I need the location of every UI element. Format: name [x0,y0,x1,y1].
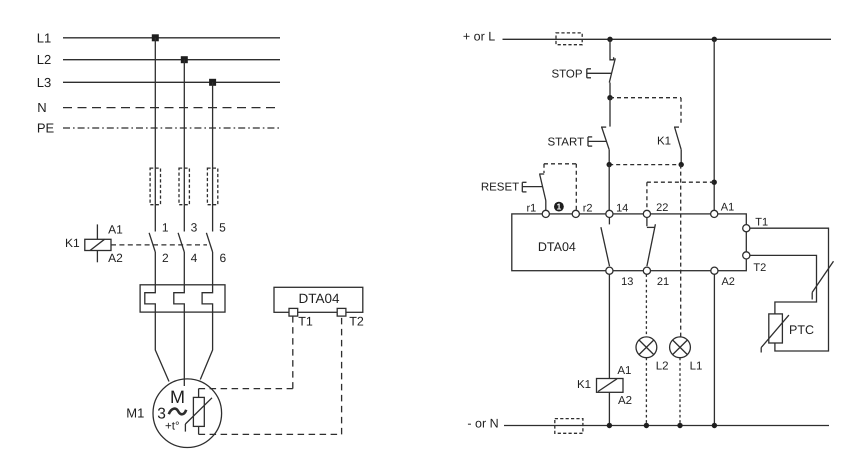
fuse top rail [556,33,582,45]
junction dot bottom L1 [677,423,682,428]
svg-text:A2: A2 [618,395,632,407]
pushbutton START [601,98,610,165]
wire A2 drop [713,274,715,425]
thermistor in motor [185,397,212,431]
wire L2 dashed to bottom [645,358,647,426]
junction dot 22 link [712,180,717,185]
wire motor lead 3 [200,312,212,379]
junction on L1 [152,34,159,41]
dashed 22 to A1 horizontal [647,181,714,183]
svg-text:RESET: RESET [481,182,519,194]
motor M1 circle [153,379,222,448]
RESET actuator [522,182,542,192]
contactor K1 pole 1 contact [149,233,155,285]
terminal T2 [743,252,750,259]
terminal T2 square left [337,308,346,316]
wire sensor dashed top [199,388,293,390]
svg-text:T1: T1 [298,315,313,329]
svg-text:L2: L2 [37,52,51,67]
svg-text:M1: M1 [126,405,144,420]
svg-text:L2: L2 [656,361,669,373]
svg-text:L1: L1 [690,361,703,373]
svg-text:r2: r2 [583,202,593,214]
terminal T1 [743,225,750,232]
svg-text:DTA04: DTA04 [538,240,576,254]
relay contact 22-21 [647,218,656,267]
svg-text:L3: L3 [37,75,51,90]
junction dot STOP bottom [607,95,612,100]
svg-text:A1: A1 [721,202,734,214]
svg-text:K1: K1 [657,136,671,148]
lamp L1 [670,337,691,358]
svg-text:4: 4 [191,251,198,265]
contactor K1 pole 3 contact [206,233,212,285]
pushbutton STOP [609,39,615,97]
DTA04 terminal box left [274,287,363,312]
svg-text:PE: PE [37,121,55,136]
wire motor lead 1 [155,312,169,381]
wire sensor dashed T1 vertical [292,316,294,388]
wire thermistor top stub [198,389,200,398]
svg-text:T1: T1 [755,217,768,229]
RESET dashed right to r2 [575,164,577,211]
svg-text:r1: r1 [527,202,537,214]
net N [37,100,280,115]
wire phase2 drop [183,60,185,232]
fuse F3 [207,168,217,205]
dashed link box right [680,98,682,124]
coil K1 right [597,379,624,393]
wire sensor dashed T2 vertical [341,316,343,434]
net L3 [37,75,280,90]
net plus or L [463,29,831,43]
terminal 21 [643,267,650,274]
wire coil to bottom [608,392,610,425]
svg-text:STOP: STOP [551,68,582,80]
junction dot bottom A2 [712,423,717,428]
net minus or N [467,416,829,430]
terminal A2 [711,267,718,274]
junction dot top left [607,37,612,42]
fuse bottom rail [555,419,583,434]
junction dot bottom 13 [607,423,612,428]
wire 21 dashed drop [645,274,647,337]
svg-text:5: 5 [219,221,226,235]
dashed link box bottom [609,164,681,166]
svg-text:K1: K1 [577,379,591,391]
net PE [37,121,280,136]
wire START to 14 [608,165,610,211]
wire A1 drop [713,39,715,210]
svg-text:2: 2 [162,251,169,265]
svg-text:A1: A1 [617,365,631,377]
wire phase1 drop [154,38,156,232]
svg-text:K1: K1 [65,236,80,250]
svg-text:A2: A2 [721,276,734,288]
svg-text:+ or L: + or L [463,29,495,43]
net L1 [37,30,280,45]
svg-text:22: 22 [656,202,668,214]
svg-text:PTC: PTC [789,323,814,337]
terminal 22 [643,210,650,217]
svg-text:L1: L1 [37,30,51,45]
junction dot START bottom [607,162,612,167]
junction dot K1 bottom [679,162,684,167]
svg-text:START: START [547,137,584,149]
svg-text:A2: A2 [108,251,123,265]
PTC thermistor [761,314,789,353]
relay contact 14-13 [601,218,610,267]
coil symbol K1 left [85,224,111,262]
heater element pole 1 [145,285,156,312]
svg-text:N: N [37,100,46,115]
overload block DTA04 heater box [140,285,225,312]
temperature mark on sensor wires [812,261,833,299]
wire T2 to PTC [750,255,817,314]
tilde AC symbol [169,409,186,415]
pushbutton RESET [539,174,546,210]
svg-text:21: 21 [657,276,669,288]
wire T1 to PTC [750,228,829,351]
terminal A1 [711,210,718,217]
junction dot top right [712,37,717,42]
svg-text:T2: T2 [349,315,364,329]
contactor K1 pole 2 contact [178,233,184,285]
svg-text:3: 3 [191,221,198,235]
fuse F2 [179,168,189,205]
contact K1 aux [674,127,681,165]
mechanical linkage dashed [111,244,207,246]
terminal 13 [606,267,613,274]
terminal r2 [572,210,579,217]
wire phase3 drop [212,82,214,231]
terminal 14 [606,210,613,217]
dashed link box top [610,97,681,99]
heater element pole 3 [202,285,213,312]
heater element pole 2 [174,285,185,312]
RESET dashed top [544,163,576,165]
svg-text:DTA04: DTA04 [298,291,340,306]
svg-text:1: 1 [162,221,169,235]
svg-text:A1: A1 [108,222,123,236]
lamp L2 [636,337,657,358]
wire 13 to coil [608,274,610,378]
wire sensor dashed bottom [199,433,342,435]
svg-text:6: 6 [219,251,226,265]
dashed 22 vertical [646,182,648,210]
callout marker 1 [554,202,564,212]
wire thermistor bottom stub [198,426,200,434]
svg-text:1: 1 [557,202,562,212]
terminal r1 [542,210,549,217]
wire L1 dashed to bottom [679,358,681,426]
net L2 [37,52,280,67]
RESET dashed left [543,164,545,173]
fuse F1 [150,168,160,205]
svg-text:M: M [170,387,185,407]
relay DTA04 box [512,214,747,271]
STOP actuator [587,69,612,78]
svg-text:T2: T2 [753,262,766,274]
wire motor lead 2 [183,312,185,386]
junction dot bottom L2 [644,423,649,428]
svg-text:14: 14 [616,202,628,214]
svg-text:13: 13 [621,276,633,288]
wire K1 dashed drop upper [680,165,682,337]
terminal T1 square left [289,308,298,316]
svg-text:+t°: +t° [165,421,180,433]
junction on L3 [209,79,216,86]
START actuator [588,137,606,146]
junction on L2 [181,56,188,63]
svg-text:- or N: - or N [467,416,498,430]
